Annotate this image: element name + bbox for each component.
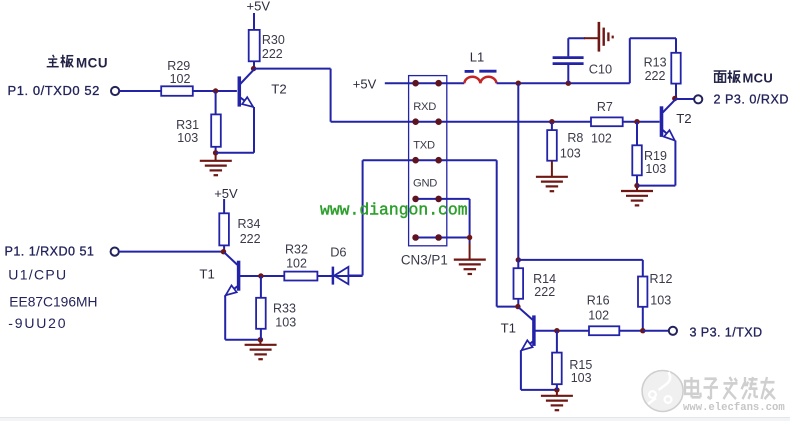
svg-text:C10: C10	[589, 62, 612, 77]
svg-text:103: 103	[645, 162, 666, 176]
svg-text:R8: R8	[567, 131, 583, 145]
svg-text:+5V: +5V	[247, 0, 271, 14]
svg-text:222: 222	[240, 232, 261, 246]
svg-text:102: 102	[286, 256, 307, 270]
svg-text:103: 103	[177, 131, 198, 145]
svg-text:T1: T1	[501, 320, 516, 335]
svg-text:222: 222	[645, 69, 666, 83]
svg-text:R33: R33	[273, 301, 296, 315]
svg-text:R7: R7	[597, 100, 613, 114]
svg-text:102: 102	[588, 308, 609, 322]
svg-text:+5V: +5V	[214, 186, 238, 201]
svg-text:L1: L1	[470, 50, 484, 65]
svg-text:EE87C196MH: EE87C196MH	[9, 295, 97, 310]
svg-text:R34: R34	[238, 217, 261, 231]
svg-text:102: 102	[170, 72, 191, 86]
svg-text:+5V: +5V	[353, 76, 377, 91]
svg-text:103: 103	[560, 147, 581, 161]
svg-text:R13: R13	[644, 56, 667, 70]
svg-text:103: 103	[571, 371, 592, 385]
svg-text:T1: T1	[199, 267, 214, 282]
svg-text:www.elecfans.com: www.elecfans.com	[683, 402, 785, 414]
svg-text:CN3/P1: CN3/P1	[401, 253, 448, 268]
svg-text:www.diangon.com: www.diangon.com	[320, 200, 468, 219]
svg-text:-9UU20: -9UU20	[8, 315, 67, 331]
svg-text:R29: R29	[167, 59, 190, 73]
svg-text:R16: R16	[587, 293, 610, 307]
svg-text:102: 102	[591, 131, 612, 145]
svg-text:R12: R12	[650, 272, 673, 286]
svg-text:103: 103	[650, 293, 671, 307]
svg-text:MCU: MCU	[743, 71, 774, 86]
svg-text:R19: R19	[644, 149, 667, 163]
svg-text:R30: R30	[262, 33, 285, 47]
svg-text:GND: GND	[413, 178, 437, 190]
svg-text:R31: R31	[176, 118, 199, 132]
svg-text:T2: T2	[676, 111, 691, 126]
svg-text:3 P3. 1/TXD: 3 P3. 1/TXD	[690, 325, 763, 339]
svg-text:222: 222	[534, 285, 555, 299]
svg-text:2 P3. 0/RXD: 2 P3. 0/RXD	[714, 92, 790, 106]
svg-text:TXD: TXD	[413, 139, 435, 151]
svg-text:R32: R32	[285, 242, 308, 256]
svg-text:U1/CPU: U1/CPU	[8, 267, 67, 283]
svg-text:MCU: MCU	[76, 56, 108, 71]
svg-text:R14: R14	[533, 272, 556, 286]
svg-text:D6: D6	[330, 245, 346, 260]
svg-text:RXD: RXD	[413, 101, 436, 113]
svg-text:P1. 1/RXD0 51: P1. 1/RXD0 51	[5, 244, 95, 258]
svg-text:103: 103	[275, 315, 296, 329]
svg-text:222: 222	[262, 47, 283, 61]
svg-text:T2: T2	[271, 82, 286, 97]
svg-text:P1. 0/TXD0 52: P1. 0/TXD0 52	[8, 83, 100, 98]
